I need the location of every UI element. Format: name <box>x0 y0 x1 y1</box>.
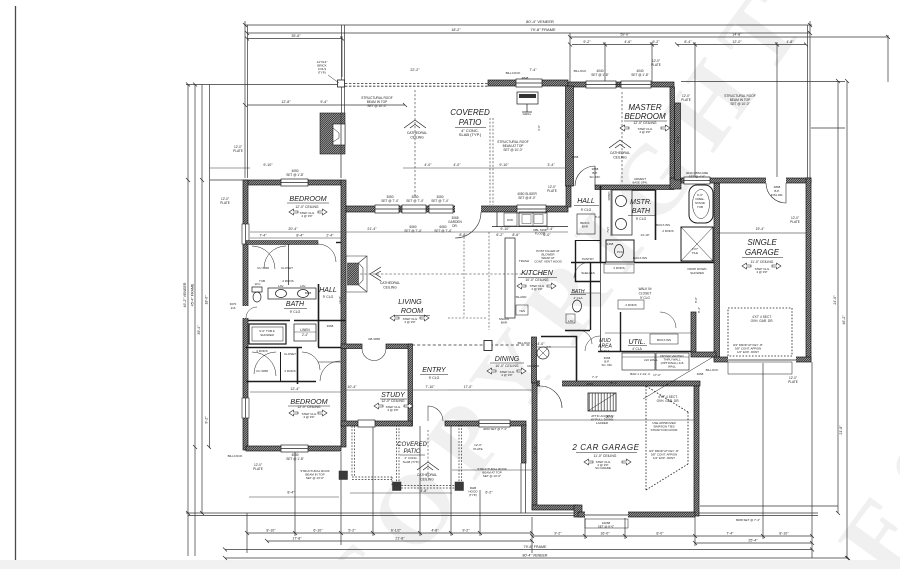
svg-text:SHOWER: SHOWER <box>260 333 274 337</box>
chimney masonry <box>320 113 345 154</box>
svg-text:9'-2": 9'-2" <box>554 532 562 536</box>
svg-text:KITCHEN: KITCHEN <box>521 268 553 277</box>
svg-text:OVH. GAR. DR.: OVH. GAR. DR. <box>751 319 774 323</box>
mud floor tub <box>537 347 549 359</box>
svg-text:BUILT-INS: BUILT-INS <box>633 256 647 260</box>
svg-text:4 @ 9'0": 4 @ 9'0" <box>501 373 512 377</box>
svg-text:9'-4": 9'-4" <box>320 100 328 104</box>
svg-text:4 @ 9'0": 4 @ 9'0" <box>404 320 415 324</box>
toilet <box>252 287 262 292</box>
svg-text:12'-4": 12'-4" <box>290 387 300 391</box>
svg-text:8'-0": 8'-0" <box>694 297 698 303</box>
svg-text:DINING: DINING <box>495 356 520 363</box>
svg-text:35'-6": 35'-6" <box>291 34 301 38</box>
svg-text:HALL: HALL <box>319 287 337 294</box>
svg-text:PLATE: PLATE <box>788 380 798 384</box>
svg-text:SLAB (TYP.): SLAB (TYP.) <box>459 132 482 137</box>
svg-text:SINGLE: SINGLE <box>747 238 777 247</box>
svg-text:BATH: BATH <box>572 289 585 295</box>
svg-text:21'-4": 21'-4" <box>367 227 377 231</box>
svg-text:2 ROOS: 2 ROOS <box>282 279 293 283</box>
svg-text:ENTRY: ENTRY <box>422 367 447 374</box>
hall lower walls <box>246 347 302 349</box>
svg-text:WALK IN: WALK IN <box>639 287 653 291</box>
svg-text:9' CLG: 9' CLG <box>640 296 650 300</box>
left small patio dashes <box>352 426 355 476</box>
interior dimension rows <box>210 168 694 497</box>
svg-text:8'-10": 8'-10" <box>779 532 789 536</box>
svg-text:TUB: TUB <box>697 205 703 209</box>
svg-text:4'-0": 4'-0" <box>453 163 461 167</box>
svg-text:DR.: DR. <box>452 224 458 228</box>
svg-text:6'-2": 6'-2" <box>496 233 504 237</box>
svg-text:HALL: HALL <box>577 198 595 205</box>
closet divider <box>280 352 282 381</box>
cathedral ceiling chevrons <box>404 120 426 128</box>
svg-text:BAR: BAR <box>501 321 508 325</box>
built-ins <box>604 264 634 273</box>
apron below single garage <box>728 362 792 374</box>
svg-text:COVERED: COVERED <box>397 442 427 448</box>
svg-text:4 @ 9'0": 4 @ 9'0" <box>756 270 767 274</box>
svg-text:BILLOCK: BILLOCK <box>706 368 719 372</box>
svg-text:BATH: BATH <box>632 208 651 215</box>
svg-text:21'-8": 21'-8" <box>839 425 843 435</box>
patio top wall <box>488 80 568 86</box>
svg-text:9' CLG: 9' CLG <box>581 208 592 212</box>
2car top door opening <box>540 380 562 387</box>
svg-text:BILLCOCK: BILLCOCK <box>506 71 521 75</box>
study bottom window <box>358 420 375 427</box>
windows (gaps with sills) <box>242 79 796 518</box>
page border left <box>15 6 17 568</box>
patio roof dashed double line <box>341 83 489 85</box>
svg-text:4'-6": 4'-6" <box>624 40 632 44</box>
living fireplace bay <box>346 256 367 292</box>
svg-text:4 @ 9'0": 4 @ 9'0" <box>531 287 542 291</box>
2-car garage attic access <box>588 393 616 411</box>
svg-text:7'-10": 7'-10" <box>425 385 435 389</box>
svg-text:4'-8": 4'-8" <box>431 529 439 533</box>
vanity counter <box>268 288 316 299</box>
svg-text:4848: 4848 <box>522 76 529 80</box>
svg-text:12'-0": 12'-0" <box>732 40 742 44</box>
svg-text:4' CLA: 4' CLA <box>574 296 583 300</box>
svg-text:1/2" EXP. JOINT: 1/2" EXP. JOINT <box>653 456 675 460</box>
svg-text:BATH: BATH <box>286 301 305 308</box>
svg-text:SET @ 4'-6": SET @ 4'-6" <box>689 175 705 179</box>
svg-text:12'-0" CEILING: 12'-0" CEILING <box>381 399 405 403</box>
2-car dotted drop zone <box>646 386 688 490</box>
svg-text:2x6: 2x6 <box>231 306 236 310</box>
right dim verticals <box>837 81 839 513</box>
svg-text:LINEN: LINEN <box>300 328 310 332</box>
svg-text:21'-0": 21'-0" <box>533 446 537 454</box>
svg-text:PLATE: PLATE <box>547 189 557 193</box>
svg-text:LAV.: LAV. <box>606 227 610 233</box>
svg-text:2'-4": 2'-4" <box>326 234 334 238</box>
svg-text:ISLAND: ISLAND <box>516 295 528 299</box>
svg-text:CEILING: CEILING <box>420 478 434 482</box>
2car garage door gap <box>585 511 628 518</box>
svg-text:SET @ 7'-4": SET @ 7'-4" <box>381 199 399 203</box>
pantry <box>575 240 577 282</box>
garage1 east wall <box>806 178 811 361</box>
svg-text:SET @ 10'-0": SET @ 10'-0" <box>730 102 749 106</box>
central spine wall <box>341 180 346 447</box>
svg-text:15'-4": 15'-4" <box>676 136 680 144</box>
svg-text:9' CLG: 9' CLG <box>323 295 334 299</box>
west exterior wall <box>243 180 248 450</box>
svg-text:PLATE: PLATE <box>253 467 263 471</box>
grill on patio <box>517 92 538 112</box>
svg-text:2 CAR GARAGE: 2 CAR GARAGE <box>571 443 639 452</box>
svg-text:SET @ 1'-8": SET @ 1'-8" <box>591 73 609 77</box>
svg-text:CONT. VENT HOOD: CONT. VENT HOOD <box>534 260 562 264</box>
svg-text:BAD 1 2 1/2 .0: BAD 1 2 1/2 .0 <box>630 372 650 376</box>
master top wall <box>568 82 674 87</box>
svg-text:GARAGE: GARAGE <box>745 248 780 257</box>
garage1 window <box>684 177 710 184</box>
svg-text:46'-2": 46'-2" <box>842 315 846 325</box>
svg-text:17'-0": 17'-0" <box>464 385 473 389</box>
svg-text:4'-0": 4'-0" <box>424 163 432 167</box>
svg-text:79'-8" FRAME: 79'-8" FRAME <box>530 27 556 32</box>
left dim verticals <box>187 85 189 557</box>
svg-text:7'-4": 7'-4" <box>726 532 734 536</box>
svg-text:LAV.: LAV. <box>300 284 306 288</box>
svg-text:2 RODS: 2 RODS <box>613 266 624 270</box>
door arcs <box>246 166 786 421</box>
svg-text:CATHEDRAL: CATHEDRAL <box>380 281 400 285</box>
svg-text:17'-0": 17'-0" <box>653 373 661 377</box>
fridge <box>577 214 595 234</box>
tick marks on dimension lines <box>186 23 890 560</box>
svg-text:14'-0": 14'-0" <box>535 342 545 346</box>
svg-text:8'-8": 8'-8" <box>459 233 467 237</box>
svg-text:PATIO: PATIO <box>459 118 482 127</box>
svg-text:3068: 3068 <box>697 372 704 376</box>
svg-text:BUILT-INS: BUILT-INS <box>657 338 671 342</box>
svg-text:LAV.: LAV. <box>278 284 284 288</box>
svg-text:5'-0": 5'-0" <box>595 215 601 219</box>
svg-text:10'-0" CEILING: 10'-0" CEILING <box>495 364 519 368</box>
svg-text:5'-2": 5'-2" <box>348 529 356 533</box>
2car garage bottom wall <box>532 505 578 510</box>
washer dryer <box>622 353 655 370</box>
svg-text:16'-0": 16'-0" <box>600 532 610 536</box>
svg-text:D/W: D/W <box>507 218 513 222</box>
svg-text:COVERED: COVERED <box>450 108 490 117</box>
svg-text:SET @ 7'-4": SET @ 7'-4" <box>431 199 449 203</box>
garage1 bottom wall <box>714 357 811 362</box>
svg-text:9' CLG: 9' CLG <box>636 217 647 221</box>
svg-text:4 @ 9'0": 4 @ 9'0" <box>639 130 650 134</box>
svg-text:1/2" EXP. JOINT: 1/2" EXP. JOINT <box>737 350 759 354</box>
svg-text:TILE: TILE <box>692 251 698 255</box>
svg-text:11'-0" CEILING: 11'-0" CEILING <box>751 260 774 264</box>
svg-text:3'-0": 3'-0" <box>537 125 541 131</box>
svg-text:39'-4": 39'-4" <box>197 325 201 335</box>
svg-text:SET @ 8'-0": SET @ 8'-0" <box>518 196 536 200</box>
svg-text:SHELVES: SHELVES <box>581 271 595 275</box>
svg-text:LIVING: LIVING <box>398 297 422 306</box>
svg-text:SET @ 7'-4": SET @ 7'-4" <box>434 229 452 233</box>
svg-text:CD 3068: CD 3068 <box>527 364 539 368</box>
svg-text:CLOSET: CLOSET <box>639 292 652 296</box>
svg-text:4 @ 9'0": 4 @ 9'0" <box>303 415 314 419</box>
svg-text:14'-10": 14'-10" <box>640 233 649 237</box>
shower <box>681 227 713 261</box>
watermark <box>297 0 900 569</box>
svg-text:8068 SET @ 7'-4": 8068 SET @ 7'-4" <box>736 518 760 522</box>
bottom dim lines <box>186 512 818 514</box>
svg-text:MSTR.: MSTR. <box>630 199 652 206</box>
svg-text:(TYP.): (TYP.) <box>318 71 326 75</box>
svg-text:CU 3068: CU 3068 <box>257 266 269 270</box>
top verticals <box>244 21 246 178</box>
svg-text:46'-2" VENEER: 46'-2" VENEER <box>183 282 187 307</box>
svg-text:BASE OPN.: BASE OPN. <box>632 181 647 185</box>
svg-text:21'-8": 21'-8" <box>395 537 405 541</box>
entry east wall <box>532 337 537 383</box>
svg-text:RGB: RGB <box>305 291 312 295</box>
svg-text:2'-4": 2'-4" <box>302 333 308 337</box>
hall right wall <box>600 186 602 262</box>
west wall door gap (bath) <box>242 306 248 318</box>
svg-text:INSL DR.: INSL DR. <box>771 193 784 197</box>
2car garage east wall <box>694 386 699 516</box>
svg-text:SHOWER: SHOWER <box>690 271 704 275</box>
master cathedral dashed vertical <box>621 92 623 184</box>
svg-text:SET @ 10'-0": SET @ 10'-0" <box>306 476 324 480</box>
svg-text:17'-8": 17'-8" <box>292 537 302 541</box>
svg-text:9'-2": 9'-2" <box>652 40 660 44</box>
dining dashed ceiling line + post <box>412 344 533 346</box>
roof junction box <box>338 80 345 87</box>
living cathedral chevron pointing left <box>370 267 381 281</box>
svg-text:SET @ 10'-0": SET @ 10'-0" <box>483 474 501 478</box>
svg-text:7'-4": 7'-4" <box>529 68 537 72</box>
svg-text:2 RODS: 2 RODS <box>662 229 673 233</box>
svg-text:80'-4" VENEER: 80'-4" VENEER <box>526 19 554 24</box>
svg-text:SET @ 1'-8": SET @ 1'-8" <box>631 73 649 77</box>
svg-text:9'-10": 9'-10" <box>263 163 273 167</box>
svg-text:PANTRY: PANTRY <box>582 257 594 261</box>
room label underlines <box>284 121 783 455</box>
svg-text:WALL: WALL <box>668 365 676 369</box>
svg-text:OVH. GAR. DR.: OVH. GAR. DR. <box>657 399 680 403</box>
svg-text:BEDROOM: BEDROOM <box>624 112 666 121</box>
svg-text:PVC: PVC <box>617 250 624 254</box>
svg-text:4 @ 9'0": 4 @ 9'0" <box>387 408 398 412</box>
svg-text:3'-4": 3'-4" <box>546 227 554 231</box>
svg-text:SET @ 8'-0": SET @ 8'-0" <box>598 525 614 529</box>
closet door arcs <box>252 352 276 376</box>
svg-text:PLATE: PLATE <box>790 220 800 224</box>
svg-text:9' CLG: 9' CLG <box>290 310 301 314</box>
svg-text:19'-4": 19'-4" <box>756 227 765 231</box>
svg-text:BILLOCK: BILLOCK <box>518 341 531 345</box>
svg-text:MASTER: MASTER <box>628 103 662 112</box>
svg-text:20'-4": 20'-4" <box>288 227 298 231</box>
svg-text:8'-0": 8'-0" <box>656 532 664 536</box>
rotated dim labels <box>183 125 846 454</box>
svg-text:PLATE: PLATE <box>473 447 482 451</box>
living/kitchen south-facing top wall <box>346 206 568 212</box>
svg-text:2 RODS: 2 RODS <box>256 349 267 353</box>
svg-text:BILLOCK: BILLOCK <box>574 69 587 73</box>
svg-text:9'-2": 9'-2" <box>462 529 470 533</box>
svg-text:ROOM: ROOM <box>401 306 423 315</box>
svg-text:SET @ 1'-8": SET @ 1'-8" <box>286 457 304 461</box>
svg-text:24'-0": 24'-0" <box>833 295 837 305</box>
svg-text:BILLCOCK: BILLCOCK <box>228 454 243 458</box>
svg-text:BEDROOM: BEDROOM <box>290 397 327 406</box>
svg-text:CATHEDRAL: CATHEDRAL <box>417 473 437 477</box>
svg-text:3068: 3068 <box>572 155 579 159</box>
svg-text:2 RODS: 2 RODS <box>284 369 295 373</box>
svg-text:9'-10": 9'-10" <box>500 227 510 231</box>
svg-text:4'-8": 4'-8" <box>420 489 428 493</box>
svg-text:18'-0": 18'-0" <box>205 295 209 305</box>
svg-text:F.T.: F.T. <box>547 345 552 349</box>
svg-text:28'-4": 28'-4" <box>609 381 617 385</box>
svg-text:9'-2": 9'-2" <box>205 416 209 424</box>
svg-text:8'-4": 8'-4" <box>296 234 304 238</box>
svg-text:4' CLA: 4' CLA <box>632 347 642 351</box>
island <box>505 238 515 318</box>
svg-text:45'-4" FRAME: 45'-4" FRAME <box>191 283 195 306</box>
svg-text:FLOOR: FLOOR <box>535 232 546 236</box>
svg-text:9'-2": 9'-2" <box>583 40 591 44</box>
svg-text:UTIL.: UTIL. <box>628 339 645 346</box>
study east / entry west wall <box>408 344 413 426</box>
svg-text:3068: 3068 <box>327 324 334 328</box>
living door opening <box>455 205 481 213</box>
svg-text:SET @ 7'-4": SET @ 7'-4" <box>406 199 424 203</box>
svg-text:59'-0": 59'-0" <box>620 33 630 37</box>
svg-text:(TYP.): (TYP.) <box>469 493 477 497</box>
top dimension lines <box>245 24 812 26</box>
svg-text:SC. DR.: SC. DR. <box>589 175 600 179</box>
svg-text:YES: YES <box>519 309 525 313</box>
svg-text:SO GRADE: SO GRADE <box>595 466 611 470</box>
svg-text:12'-0" CEILING: 12'-0" CEILING <box>633 121 657 125</box>
vanity <box>612 190 632 235</box>
svg-text:3'-4": 3'-4" <box>547 163 555 167</box>
svg-text:STUDY: STUDY <box>381 392 406 399</box>
corner posts <box>393 482 402 491</box>
2car garage west wall <box>532 383 537 509</box>
room labels <box>286 103 780 452</box>
wc room <box>606 240 634 262</box>
svg-text:2 RODS: 2 RODS <box>625 303 636 307</box>
svg-text:6'-10": 6'-10" <box>313 529 323 533</box>
bedroom1 top window <box>281 179 308 186</box>
svg-text:22'-2": 22'-2" <box>410 68 420 72</box>
svg-text:3068: 3068 <box>587 382 594 386</box>
svg-text:AREA: AREA <box>597 344 612 350</box>
patio cathedral dashed vertical <box>414 90 416 198</box>
svg-text:79'-8" FRAME: 79'-8" FRAME <box>524 545 547 549</box>
svg-text:BEDROOM: BEDROOM <box>289 194 326 203</box>
svg-text:PATIO: PATIO <box>403 449 420 455</box>
svg-text:PLATE: PLATE <box>233 149 243 153</box>
study top wall <box>341 344 362 349</box>
walk-in closet walls <box>590 262 592 330</box>
svg-text:4'-8": 4'-8" <box>786 40 794 44</box>
svg-text:18'-2": 18'-2" <box>451 28 461 32</box>
svg-text:80'-4" VENEER: 80'-4" VENEER <box>523 554 548 558</box>
svg-text:SC. DR.: SC. DR. <box>601 363 612 367</box>
master windows <box>586 81 616 88</box>
svg-text:LADDER: LADDER <box>596 421 609 425</box>
bath/closet dividing walls <box>634 262 714 264</box>
svg-text:SET @ 1'-8": SET @ 1'-8" <box>286 173 304 177</box>
svg-text:CEILING: CEILING <box>383 286 397 290</box>
svg-text:BAR: BAR <box>582 225 589 229</box>
kitchen slider <box>517 205 546 213</box>
patio ceiling-break double dash <box>489 118 491 205</box>
svg-text:CLOSET: CLOSET <box>284 352 296 356</box>
svg-text:6'-1/2": 6'-1/2" <box>391 529 402 533</box>
living windows <box>375 205 399 213</box>
svg-text:12'-8": 12'-8" <box>281 100 291 104</box>
svg-text:PLATE: PLATE <box>220 201 230 205</box>
svg-text:10'-4": 10'-4" <box>347 385 357 389</box>
single garage dotted overhead door box <box>728 308 792 356</box>
svg-text:BUILT-INS: BUILT-INS <box>656 223 670 227</box>
linen <box>294 324 316 341</box>
front patio dashed border <box>397 425 400 488</box>
garage1 top wall <box>681 178 811 183</box>
bedroom2 bottom window <box>281 445 308 452</box>
svg-text:7'-4": 7'-4" <box>592 375 598 379</box>
svg-text:8'-6": 8'-6" <box>512 233 520 237</box>
garage1 car door gap <box>728 356 796 363</box>
svg-text:14'-0": 14'-0" <box>338 296 342 304</box>
svg-text:7'-4": 7'-4" <box>259 234 267 238</box>
svg-text:20'-4": 20'-4" <box>606 415 615 419</box>
svg-text:CEILING: CEILING <box>613 156 627 160</box>
svg-text:2x6 WALL: 2x6 WALL <box>644 358 658 362</box>
svg-text:PLATE: PLATE <box>651 63 661 67</box>
svg-text:10'-0" CEILING: 10'-0" CEILING <box>525 278 549 282</box>
svg-text:25'-4": 25'-4" <box>748 539 758 543</box>
svg-text:4' CLA: 4' CLA <box>601 349 610 353</box>
leader from brick cols note to patio roof <box>328 75 339 83</box>
svg-text:CEILING: CEILING <box>410 136 424 140</box>
svg-text:SET @ 7'-4": SET @ 7'-4" <box>404 229 422 233</box>
patio wall window 4848 <box>516 79 542 87</box>
dashed ceiling / roof lines <box>341 84 622 331</box>
svg-text:4 @ 9'0": 4 @ 9'0" <box>301 214 312 218</box>
svg-text:2468: 2468 <box>607 242 614 246</box>
svg-text:CATHEDRAL: CATHEDRAL <box>407 131 427 135</box>
2car apron <box>585 519 628 528</box>
svg-text:GRILL: GRILL <box>523 112 532 116</box>
guest bath <box>565 300 592 344</box>
house east wall <box>670 87 675 180</box>
svg-text:6'-2": 6'-2" <box>485 491 493 495</box>
svg-text:8'-4": 8'-4" <box>697 307 701 313</box>
west wall window (bedroom2) <box>242 398 249 418</box>
svg-text:8'-4": 8'-4" <box>684 40 692 44</box>
tub/shower <box>249 324 286 344</box>
svg-text:SLAB (TYP.): SLAB (TYP.) <box>403 460 420 464</box>
bedroom2 bottom wall <box>246 446 341 451</box>
